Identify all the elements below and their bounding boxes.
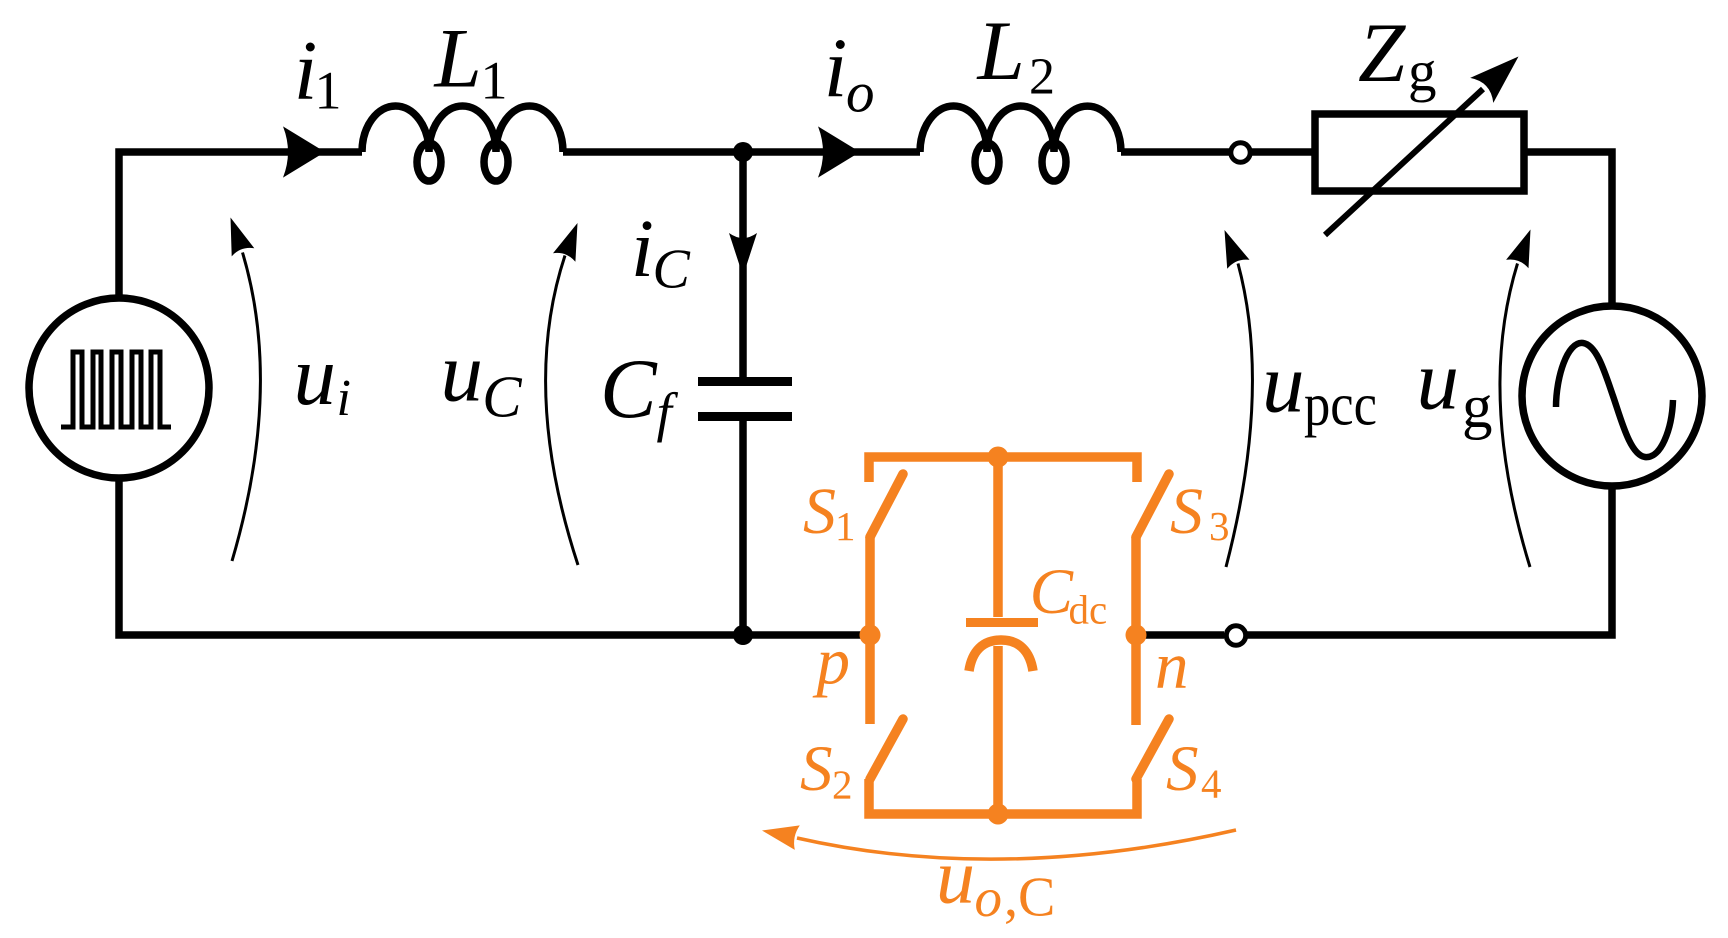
svg-text:g: g: [1462, 374, 1493, 441]
svg-text:i: i: [631, 202, 654, 294]
svg-text:4: 4: [1201, 761, 1222, 807]
svg-text:1: 1: [315, 61, 342, 121]
svg-text:C: C: [653, 239, 691, 301]
svg-text:C: C: [482, 364, 522, 430]
svg-text:u: u: [294, 329, 337, 423]
svg-text:S: S: [1166, 733, 1199, 805]
svg-text:dc: dc: [1069, 587, 1108, 633]
svg-text:u: u: [1262, 337, 1305, 431]
svg-text:C: C: [600, 342, 658, 436]
svg-text:g: g: [1408, 41, 1437, 104]
svg-text:i: i: [824, 21, 848, 115]
svg-text:1: 1: [481, 51, 508, 111]
svg-text:S: S: [803, 475, 836, 548]
svg-text:p: p: [813, 625, 851, 699]
svg-text:2: 2: [832, 762, 853, 808]
svg-text:o: o: [975, 867, 1003, 928]
svg-text:1: 1: [835, 503, 856, 549]
svg-text:3: 3: [1209, 503, 1230, 549]
svg-text:n: n: [1155, 629, 1189, 703]
svg-text:S: S: [1170, 475, 1203, 548]
svg-text:i: i: [337, 370, 351, 427]
svg-text:2: 2: [1029, 49, 1055, 106]
svg-text:o: o: [846, 62, 875, 125]
svg-text:pcc: pcc: [1304, 372, 1377, 438]
svg-text:L: L: [977, 4, 1025, 98]
svg-text:Z: Z: [1358, 6, 1406, 100]
svg-text:,C: ,C: [1004, 867, 1055, 929]
svg-text:f: f: [657, 382, 679, 443]
svg-text:S: S: [800, 733, 833, 805]
svg-text:C: C: [1030, 556, 1074, 628]
svg-text:L: L: [434, 12, 482, 106]
svg-text:u: u: [441, 326, 484, 420]
svg-text:u: u: [1417, 334, 1460, 428]
svg-text:u: u: [936, 833, 975, 920]
